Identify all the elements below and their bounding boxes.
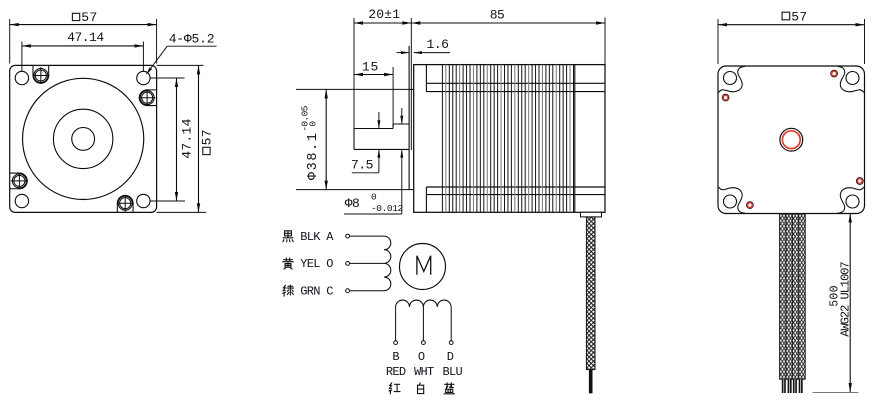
rear bolt hole bottom-left [724, 195, 737, 208]
cable braid side view [586, 217, 595, 370]
dimension 20 plus-minus 1 [354, 22, 411, 24]
svg-text:B: B [392, 350, 399, 364]
cable wire tip side view [589, 370, 593, 394]
tie rod rails bottom [426, 186, 605, 188]
mounting hole bottom-right [137, 194, 150, 207]
svg-text:WHT: WHT [414, 365, 434, 379]
shaft tip extension line [353, 18, 355, 129]
label blue chinese [444, 383, 454, 394]
svg-text:85: 85 [490, 8, 505, 23]
rear bolt hole top-left [724, 72, 737, 85]
motor symbol M [400, 244, 446, 290]
label white chinese [418, 383, 424, 394]
label red chinese [389, 383, 400, 394]
screw pocket top-right [139, 90, 156, 106]
mounting hole top-right [137, 71, 150, 84]
screw top-left [34, 69, 48, 83]
terminal B [394, 341, 398, 345]
rear end bell edge [574, 65, 576, 213]
pilot boss circle [53, 109, 112, 168]
dimension 1.6 [397, 52, 410, 54]
dimension 15 [392, 67, 394, 127]
svg-text:-0.05: -0.05 [300, 105, 311, 131]
dimension 7.5 [378, 112, 380, 129]
svg-text:O: O [418, 350, 425, 364]
svg-text:57: 57 [81, 10, 97, 25]
phase coil winding horizontal [396, 300, 452, 307]
terminal C [346, 289, 350, 293]
screw top-right [140, 91, 154, 105]
svg-text:0: 0 [371, 192, 377, 203]
svg-text:BLK A: BLK A [300, 230, 334, 244]
svg-text:47.14: 47.14 [180, 118, 195, 159]
svg-text:20±1: 20±1 [368, 7, 400, 22]
screw pocket bottom-left [10, 173, 28, 189]
svg-text:YEL O: YEL O [300, 257, 333, 271]
dimension phi 8 tolerance [401, 108, 403, 124]
mounting hole bottom-left [15, 194, 28, 207]
terminal O bottom [422, 341, 426, 345]
tie rod rails top [426, 82, 605, 84]
wire O to coil [350, 262, 385, 264]
phase coil winding vertical [384, 236, 391, 291]
rear center bearing boss [780, 128, 803, 151]
front flange circle [23, 78, 144, 199]
rear lead wires [782, 379, 786, 393]
shaft circle [72, 127, 95, 150]
extension line 20 dim [410, 18, 412, 150]
front end bell inner edge [425, 65, 427, 92]
pilot boss front face [408, 46, 410, 190]
rear screw head bottom-left [747, 202, 754, 209]
terminal O [346, 262, 350, 266]
screw bottom-right [118, 196, 132, 210]
front view motor face plate [10, 65, 157, 212]
dimension 47.14 top [21, 42, 23, 72]
rear corner pocket top-right [837, 66, 864, 92]
rear bolt hole bottom-right [846, 195, 859, 208]
svg-text:1.6: 1.6 [427, 37, 449, 52]
rear bolt hole top-right [846, 72, 859, 85]
rear screw head bottom-right [856, 178, 863, 185]
rear center red circle [782, 131, 800, 149]
svg-text:D: D [447, 350, 454, 364]
wiring label yellow YEL O [283, 258, 294, 269]
shaft side view [353, 129, 355, 150]
wiring label green GRN C [283, 285, 294, 296]
svg-text:Φ38.1: Φ38.1 [306, 132, 321, 181]
dimension 47.14 right vertical [176, 78, 178, 201]
cable collar side view [581, 212, 602, 217]
svg-text:AWG22 UL1007: AWG22 UL1007 [839, 261, 853, 336]
dimension square 57 top [9, 19, 11, 64]
rear corner pocket bottom-left [719, 187, 746, 213]
wiring label black BLK A [283, 231, 293, 242]
wire B down [395, 307, 397, 341]
svg-text:GRN C: GRN C [300, 284, 333, 298]
pilot boss outline [409, 88, 414, 90]
svg-text:57: 57 [200, 129, 215, 145]
dimension phi 38.1 tolerance [296, 88, 409, 90]
terminal A [346, 234, 350, 238]
wire D down [450, 307, 452, 341]
svg-text:7.5: 7.5 [351, 158, 373, 173]
dimension square 57 rear [717, 19, 719, 64]
rear screw head top-right [831, 70, 838, 77]
svg-text:BLU: BLU [443, 365, 463, 379]
screw pocket bottom-right [117, 195, 133, 212]
dimension 85 [604, 17, 606, 64]
terminal D [449, 341, 453, 345]
mounting hole top-left [15, 71, 28, 84]
screw pocket top-left [33, 65, 49, 83]
rear cable braid [780, 214, 806, 379]
rear corner pocket bottom-right [837, 187, 864, 213]
extension lines right side [157, 64, 204, 66]
svg-text:15: 15 [362, 60, 379, 75]
svg-text:57: 57 [791, 9, 807, 24]
svg-text:Φ8: Φ8 [345, 196, 360, 211]
stator laminations [441, 65, 443, 213]
label 4-phi5.2 with leader [147, 46, 168, 74]
wire C to coil [350, 290, 385, 292]
wire A to coil [350, 235, 385, 237]
dimension 500 cable length [849, 214, 851, 393]
svg-text:RED: RED [386, 365, 406, 379]
motor body outline [414, 65, 605, 213]
rear view end bell outline [718, 66, 865, 214]
svg-text:47.14: 47.14 [67, 30, 104, 45]
dimension square 57 right vertical [198, 65, 200, 212]
rear corner pocket top-left [719, 66, 746, 92]
svg-text:4-Φ5.2: 4-Φ5.2 [169, 32, 215, 47]
screw bottom-left [12, 174, 26, 188]
rear screw head top-left [722, 94, 729, 101]
svg-text:-0.012: -0.012 [371, 203, 404, 214]
wire O down [422, 307, 424, 341]
